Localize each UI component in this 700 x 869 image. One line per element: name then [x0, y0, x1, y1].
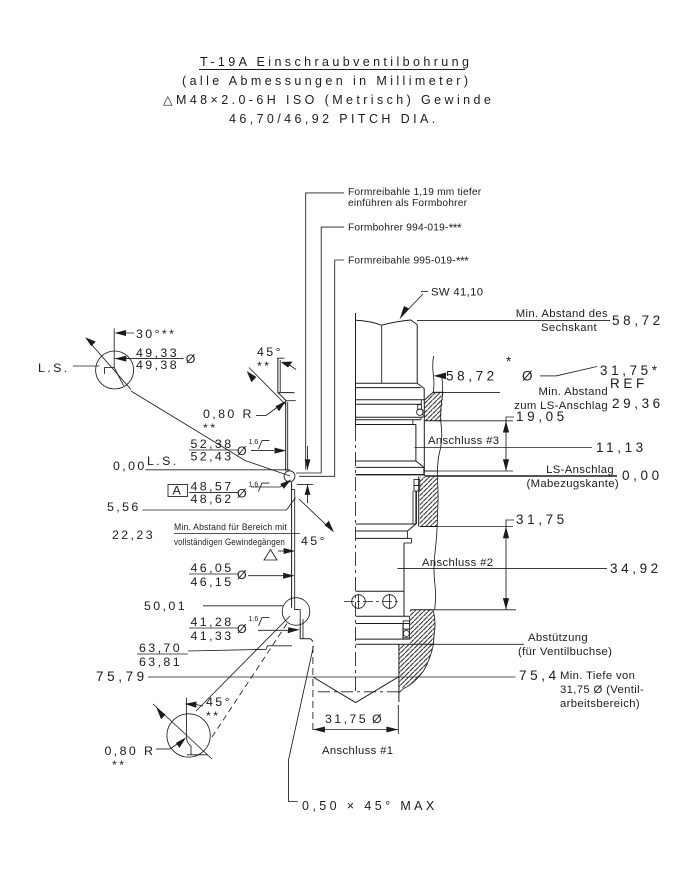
svg-text:Anschluss #3: Anschluss #3 [428, 435, 499, 447]
leader 11,13 [415, 447, 593, 449]
svg-text:Abstützung: Abstützung [528, 632, 588, 644]
svg-text:Min. Abstand für Bereich mit: Min. Abstand für Bereich mit [174, 522, 287, 532]
valve hex left edge [355, 313, 357, 427]
leader 0,50 [289, 646, 314, 802]
valve nose top band [356, 591, 410, 623]
label 0,80 R bottom [105, 744, 156, 772]
valve washer top [356, 387, 421, 389]
title line 1 [199, 55, 472, 70]
valve neck [415, 425, 417, 462]
svg-text:0,80 R: 0,80 R [203, 407, 254, 421]
svg-text:Formbohrer 994-019-***: Formbohrer 994-019-*** [348, 221, 462, 235]
leader Sechskant [417, 319, 610, 321]
cavity left 41 bottom face [300, 638, 310, 640]
valve hex mid facet [381, 326, 383, 384]
svg-text:Min. Tiefe von: Min. Tiefe von [560, 670, 635, 682]
label Min Abstand zum LS-Anschlag [514, 386, 608, 412]
valve collar face [356, 466, 424, 468]
dim 46,05 [189, 561, 295, 589]
svg-text:58,72: 58,72 [446, 369, 498, 384]
svg-text:L.S.: L.S. [38, 361, 70, 375]
port 2 hole bottom / bottom block top [410, 609, 433, 611]
svg-text:vollständigen Gewindegängen: vollständigen Gewindegängen [174, 537, 285, 547]
cavity right counterbore wall [433, 356, 434, 392]
leader SW [400, 292, 429, 320]
cavity right thread wall [417, 477, 419, 527]
svg-text:SW 41,10: SW 41,10 [431, 287, 483, 299]
svg-text:52,43: 52,43 [191, 450, 234, 464]
port 3 hole bottom [424, 470, 437, 472]
dim 52,38 [189, 437, 286, 464]
svg-text:31,75: 31,75 [325, 712, 368, 726]
svg-text:49,38: 49,38 [136, 358, 179, 372]
label 30 deg [114, 327, 176, 341]
cavity right mouth chamfer [425, 392, 434, 400]
dim 48,57 [189, 480, 291, 507]
svg-text:48,62: 48,62 [191, 492, 234, 506]
svg-text:Ø: Ø [237, 622, 249, 636]
label Abstuetzung [518, 632, 612, 658]
svg-text:Anschluss #1: Anschluss #1 [322, 745, 393, 757]
detail balloon bottom [153, 698, 212, 759]
leader Abstuetzung [430, 643, 524, 645]
shoulder face line [399, 643, 434, 645]
svg-text:50,01: 50,01 [144, 599, 187, 613]
leader LS-Anschlag [425, 475, 617, 477]
cavity left bottom chamfer [311, 639, 314, 642]
svg-text:Anschluss #2: Anschluss #2 [422, 557, 493, 569]
svg-text:1.6: 1.6 [249, 616, 259, 623]
svg-text:22,23: 22,23 [112, 528, 155, 542]
svg-text:0,00: 0,00 [622, 468, 663, 483]
bore right wall [398, 644, 400, 702]
svg-text:Ø: Ø [237, 487, 249, 501]
centerline [355, 427, 357, 695]
svg-text:29,36: 29,36 [612, 396, 664, 411]
cavity left 52 bore wall [286, 401, 288, 471]
leader balloon to relief dashed [212, 622, 288, 737]
svg-text:(Mabezugskante): (Mabezugskante) [526, 478, 619, 490]
leader thread arrow [278, 548, 295, 554]
svg-text:58,72: 58,72 [612, 313, 664, 328]
valve cross holes [352, 594, 397, 609]
svg-text:*: * [506, 354, 515, 369]
svg-text:46,05: 46,05 [191, 561, 234, 575]
valve collar chamfer [416, 461, 424, 467]
svg-text:Min. Abstand: Min. Abstand [538, 386, 608, 398]
valve thread end [356, 524, 416, 538]
valve thread od [413, 491, 416, 524]
svg-text:46,70/46,92 PITCH DIA.: 46,70/46,92 PITCH DIA. [229, 112, 439, 126]
relief corner step inside circle [295, 605, 301, 619]
valve washer bottom [356, 399, 425, 401]
svg-text:0,00: 0,00 [113, 459, 147, 473]
leader 45 upper arrowA [281, 362, 296, 370]
svg-text:Ø: Ø [372, 712, 384, 726]
valve thread seal rects [414, 480, 420, 492]
svg-text:Min. Abstand des: Min. Abstand des [516, 308, 608, 320]
label 45 deg bottom [206, 695, 232, 723]
svg-text:LS-Anschlag: LS-Anschlag [546, 464, 614, 476]
svg-text:19,05: 19,05 [516, 409, 568, 424]
cavity left counterbore bottom face [278, 392, 295, 394]
hatch bottom block [399, 610, 435, 689]
datum A box [168, 484, 188, 498]
port 2 hole top [420, 526, 437, 528]
svg-text:Ø: Ø [237, 444, 249, 458]
svg-text:0,80 R: 0,80 R [105, 744, 156, 758]
leader 45 upper arrowB [247, 368, 286, 406]
svg-text:Ø: Ø [186, 352, 198, 366]
lower dash centerline [318, 691, 402, 693]
cavity left 41 bore wall [300, 619, 303, 639]
svg-text:Formreibahle 1,19 mm tiefer: Formreibahle 1,19 mm tiefer [348, 187, 482, 198]
leader 75,79 line [148, 676, 516, 678]
svg-text:63,70: 63,70 [139, 641, 182, 655]
leader 45 mid [299, 499, 334, 532]
cavity right counterbore bottom face [433, 391, 443, 393]
leader 29,36 [433, 391, 500, 393]
cone left slant [313, 677, 356, 703]
cavity left mouth chamfer [278, 393, 286, 401]
relief mini circle left [282, 598, 310, 626]
value 75,4 [519, 668, 644, 710]
valve shoulder steps [356, 417, 421, 424]
leader L.S. [73, 365, 100, 367]
svg-text:75,4: 75,4 [519, 668, 560, 683]
hatch thread zone [420, 477, 439, 527]
svg-text:30°**: 30°** [136, 327, 176, 341]
dim 31,75 bottom [313, 646, 398, 734]
bottom block right break [399, 610, 435, 693]
L.S. detail balloon [85, 328, 133, 389]
cavity right 52 bore wall [423, 400, 425, 476]
valve collar bottom [356, 474, 425, 476]
break line right long [434, 377, 443, 609]
label Min Abstand Gewinde [174, 522, 300, 547]
leader Formreibahle tiefer [306, 193, 344, 470]
dim 31,75 right [428, 512, 568, 610]
cavity left counterbore wall [277, 358, 285, 392]
valve stem [356, 538, 412, 591]
svg-text:75,79: 75,79 [96, 669, 148, 684]
label 0,00 L.S. [113, 454, 179, 473]
label Min Abstand Sechskant [516, 308, 608, 334]
svg-text:A: A [173, 484, 184, 498]
svg-text:0,50 × 45° MAX: 0,50 × 45° MAX [302, 799, 438, 813]
thread triangle symbol [264, 550, 277, 561]
svg-text:L.S.: L.S. [147, 454, 179, 468]
svg-text:1.6: 1.6 [249, 439, 259, 446]
svg-text:(alle Abmessungen in Millimete: (alle Abmessungen in Millimeter) [182, 74, 471, 88]
svg-text:**: ** [257, 359, 271, 373]
valve hex right edge [416, 325, 418, 384]
svg-text:31,75: 31,75 [516, 512, 568, 527]
svg-text:63,81: 63,81 [139, 655, 182, 669]
label Formreibahle tiefer [348, 187, 482, 209]
svg-text:arbeitsbereich): arbeitsbereich) [560, 698, 640, 710]
svg-text:41,33: 41,33 [191, 629, 234, 643]
svg-text:△M48×2.0-6H ISO (Metrisch) Gew: △M48×2.0-6H ISO (Metrisch) Gewinde [163, 93, 494, 107]
svg-text:11,13: 11,13 [596, 440, 647, 455]
leader 34,92 [398, 567, 608, 569]
dim 41,28 [189, 615, 300, 643]
svg-text:(für Ventilbuchse): (für Ventilbuchse) [518, 646, 612, 658]
label 0,80 R upper [203, 407, 254, 435]
svg-text:einführen als Formbohrer: einführen als Formbohrer [348, 198, 468, 209]
valve nose oring [403, 621, 410, 639]
dim 63,70 [137, 641, 292, 669]
leader 31,75 REF [556, 363, 661, 391]
valve hex top [356, 320, 418, 325]
svg-text:46,15: 46,15 [191, 575, 234, 589]
svg-text:Formreibahle 995-019-***: Formreibahle 995-019-*** [348, 254, 469, 268]
cone right slant [356, 677, 399, 703]
valve collar top [356, 460, 416, 462]
svg-text:REF: REF [610, 376, 648, 391]
cavity left 48 face [286, 400, 296, 402]
dim 49,33 [115, 346, 198, 372]
svg-text:Ø: Ø [522, 369, 536, 384]
leader 50,01 [203, 605, 284, 607]
LS corner circle left [284, 471, 295, 482]
leader Formreibahle 995 [299, 260, 344, 476]
leader 0,80 R upper [256, 401, 286, 416]
leader 0,00 LS line [146, 469, 291, 471]
cavity left thread wall [292, 482, 295, 608]
valve oring groove upper [356, 400, 424, 418]
cross hole centerline [344, 601, 400, 603]
dim 58,72 dia [434, 354, 557, 384]
label LS-Anschlag [526, 464, 619, 490]
svg-text:5,56: 5,56 [107, 500, 141, 514]
leader 45 bottom arrow [185, 702, 203, 708]
hatch upper ledge [425, 393, 444, 421]
leader 0,80 R bottom [156, 737, 186, 749]
svg-text:**: ** [112, 758, 126, 772]
leader balloon to relief solid [196, 616, 290, 711]
leader balloon to corner [131, 391, 290, 476]
valve washer od [423, 389, 425, 400]
dim 19,05 [437, 409, 568, 471]
svg-text:Sechskant: Sechskant [541, 322, 597, 334]
valve washer chamfer [417, 383, 424, 388]
port 3 hole top [424, 420, 441, 422]
leader 5,56 [143, 498, 296, 511]
leader Formbohrer [296, 227, 344, 473]
mini dim 5,56 arrows [297, 446, 313, 503]
svg-text:45°: 45° [257, 345, 283, 359]
svg-text:41,28: 41,28 [191, 615, 234, 629]
svg-text:45°: 45° [301, 534, 327, 548]
svg-text:T-19A Einschraubventilbohrung: T-19A Einschraubventilbohrung [200, 55, 472, 69]
svg-text:**: ** [203, 421, 217, 435]
svg-text:Ø: Ø [237, 568, 249, 582]
svg-text:31,75 Ø (Ventil-: 31,75 Ø (Ventil- [560, 684, 644, 696]
valve hex bottom [356, 382, 418, 384]
label 45 deg upper [257, 345, 283, 373]
svg-text:**: ** [206, 709, 220, 723]
valve collar od [423, 467, 425, 474]
valve nose bottom [356, 638, 410, 644]
svg-text:34,92: 34,92 [610, 561, 662, 576]
svg-text:1.6: 1.6 [249, 482, 259, 489]
